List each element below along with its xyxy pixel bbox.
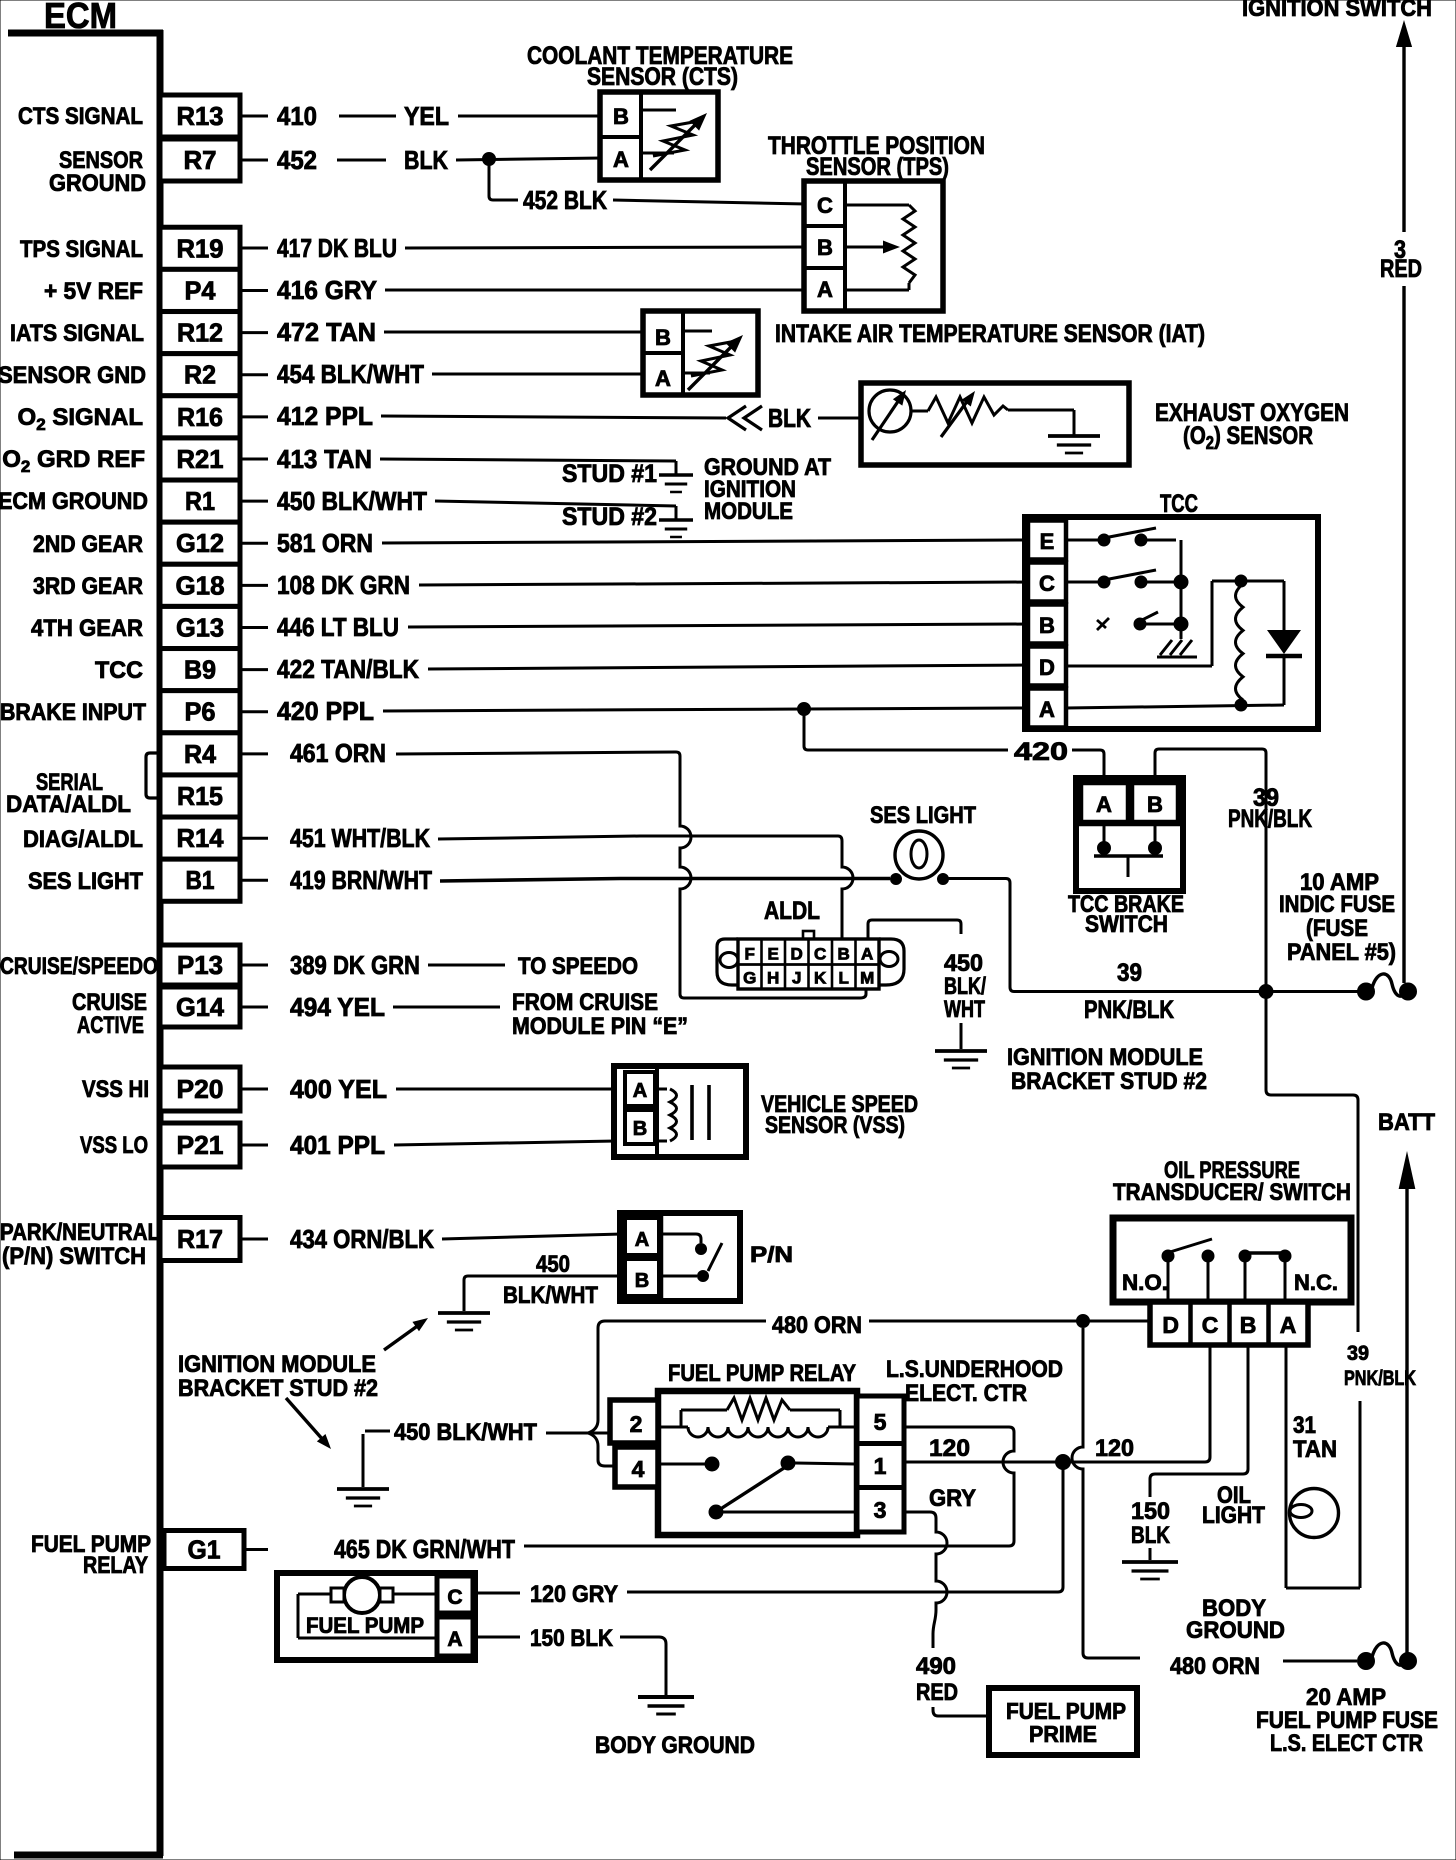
svg-text:SES LIGHT: SES LIGHT: [28, 868, 143, 895]
CTS connector body: [600, 92, 718, 180]
svg-text:490: 490: [916, 1653, 956, 1680]
wire 434 ORN/BLK (R17 to P/N A): [242, 1238, 268, 1241]
fuel pump relay box: [658, 1391, 857, 1535]
svg-text:401 PPL: 401 PPL: [290, 1130, 385, 1160]
wire TCC brake switch B to 39 PNK/BLK: [1155, 749, 1266, 986]
wire 120 GRY (fuel pump C): [475, 1592, 520, 1595]
svg-text:GROUND: GROUND: [1186, 1617, 1285, 1644]
svg-text:SENSOR GND: SENSOR GND: [0, 362, 146, 389]
svg-text:480 ORN: 480 ORN: [772, 1312, 862, 1339]
svg-text:A: A: [1039, 697, 1055, 722]
TCC D wire to solenoid coil: [1066, 665, 1212, 668]
svg-text:IGNITION MODULE: IGNITION MODULE: [1007, 1044, 1203, 1071]
svg-text:+ 5V REF: + 5V REF: [44, 278, 143, 305]
svg-text:G: G: [743, 969, 756, 988]
ALDL pin grid: [738, 939, 879, 989]
svg-text:D: D: [1162, 1312, 1179, 1338]
wire 120 GRY drop to fuel pump C: [627, 1469, 1063, 1592]
svg-text:PNK/BLK: PNK/BLK: [1344, 1367, 1416, 1390]
20 amp fuel pump fuse: [1358, 1653, 1375, 1670]
svg-text:L: L: [839, 969, 849, 988]
TPS wiper arrow: [847, 246, 886, 249]
svg-text:G18: G18: [176, 570, 225, 600]
TCC pin A: [1028, 689, 1066, 728]
svg-text:3RD GEAR: 3RD GEAR: [33, 573, 143, 600]
svg-text:B: B: [1039, 613, 1055, 638]
svg-text:B: B: [655, 325, 671, 350]
O2 variable resistor: [928, 397, 1008, 423]
svg-text:TCC: TCC: [95, 657, 143, 684]
svg-text:(FUSE: (FUSE: [1306, 915, 1368, 942]
wire 452 BLK (R7 to CTS A): [242, 159, 268, 162]
svg-text:108 DK GRN: 108 DK GRN: [277, 570, 410, 600]
fuel pump box: [277, 1573, 475, 1660]
ECM pin R19: [160, 227, 240, 269]
svg-text:MODULE: MODULE: [704, 498, 793, 525]
svg-text:BRACKET STUD #2: BRACKET STUD #2: [1011, 1068, 1207, 1095]
svg-text:FROM CRUISE: FROM CRUISE: [512, 989, 658, 1016]
svg-text:PANEL #5): PANEL #5): [1287, 939, 1396, 966]
svg-text:410: 410: [277, 101, 317, 131]
svg-text:413 TAN: 413 TAN: [277, 444, 372, 474]
svg-text:BLK: BLK: [404, 145, 448, 175]
svg-text:B: B: [817, 235, 833, 260]
wire 420 PPL (P6 to TCC A): [242, 710, 268, 713]
svg-text:YEL: YEL: [404, 101, 449, 131]
svg-text:A: A: [1096, 792, 1112, 817]
svg-text:581 ORN: 581 ORN: [277, 528, 373, 558]
park/neutral switch: [620, 1213, 740, 1301]
P/N switch contacts: [663, 1234, 701, 1243]
wire SES to 39 PNK/BLK line: [948, 879, 1360, 992]
svg-text:R17: R17: [177, 1224, 223, 1254]
svg-text:450 BLK/WHT: 450 BLK/WHT: [394, 1419, 537, 1446]
svg-text:A: A: [817, 277, 833, 302]
ECM pin P20: [160, 1067, 240, 1111]
svg-text:C: C: [814, 945, 826, 964]
svg-text:B: B: [1240, 1312, 1257, 1338]
body ground for fuel pump: [638, 1697, 694, 1714]
wire 465 DK GRN/WHT (G1 to relay pin 5): [242, 1548, 268, 1551]
svg-text:DIAG/ALDL: DIAG/ALDL: [23, 826, 143, 853]
TCC B switch: [1097, 618, 1109, 630]
body ground for 150 BLK: [1122, 1562, 1178, 1579]
relay pins 5/1/3: [857, 1396, 904, 1532]
fuel pump motor: [344, 1577, 380, 1613]
ECM pin R12: [160, 312, 240, 354]
svg-text:CTS SIGNAL: CTS SIGNAL: [18, 103, 143, 130]
fuel pump prime connector: [989, 1688, 1137, 1755]
svg-text:A: A: [633, 1080, 647, 1102]
wire 446 LT BLU (G13 to TCC B): [242, 626, 268, 629]
wire 451 WHT/BLK (R14 to ALDL B): [242, 837, 268, 840]
TCC A internal wire: [1066, 705, 1284, 708]
ECM pin R1: [160, 480, 240, 522]
svg-text:B: B: [613, 104, 629, 129]
svg-text:R14: R14: [177, 823, 225, 853]
svg-text:BRAKE INPUT: BRAKE INPUT: [0, 699, 146, 726]
svg-text:A: A: [655, 366, 671, 391]
svg-text:VSS HI: VSS HI: [82, 1076, 149, 1103]
svg-text:420: 420: [1014, 738, 1068, 766]
wire 39 PNK/BLK (junction down to oil light): [1266, 998, 1358, 1332]
ground at stud #1: [675, 461, 678, 474]
svg-text:C: C: [817, 193, 833, 218]
TCC pin E: [1028, 521, 1066, 560]
oil switch pin row D C B A: [1150, 1302, 1308, 1345]
wire 410 YEL (R13 to CTS B): [242, 115, 268, 118]
svg-text:480 ORN: 480 ORN: [1170, 1653, 1260, 1680]
svg-text:D: D: [1039, 655, 1055, 680]
svg-text:389 DK GRN: 389 DK GRN: [290, 950, 420, 980]
relay contacts: [661, 1463, 705, 1466]
wire 401 PPL (P21 to VSS B): [242, 1144, 268, 1147]
exhaust oxygen sensor box: [861, 383, 1129, 465]
TPS potentiometer: [847, 204, 909, 207]
wire 417 DK BLU (R19 to TPS B): [242, 247, 268, 250]
svg-text:R16: R16: [177, 402, 223, 432]
svg-text:BLK: BLK: [1131, 1522, 1171, 1549]
svg-text:CRUISE/SPEEDO: CRUISE/SPEEDO: [0, 953, 158, 980]
svg-text:RELAY: RELAY: [83, 1552, 148, 1579]
svg-text:STUD #1: STUD #1: [562, 460, 657, 488]
TCC pin C: [1028, 563, 1066, 602]
wire 452 BLK branch to TPS C: [489, 159, 518, 200]
relay resistor (parallel): [680, 1410, 683, 1427]
svg-text:R15: R15: [177, 781, 223, 811]
svg-text:A: A: [613, 147, 629, 172]
svg-text:450 BLK/WHT: 450 BLK/WHT: [277, 486, 427, 516]
svg-text:TCC: TCC: [1160, 490, 1198, 518]
svg-text:(O2) SENSOR: (O2) SENSOR: [1183, 422, 1313, 453]
svg-text:M: M: [860, 969, 874, 988]
serial data bracket (R4/R15): [146, 753, 160, 798]
svg-text:R7: R7: [184, 145, 217, 175]
wire 389 DK GRN (P13 to speedo): [242, 964, 268, 967]
svg-text:B: B: [1147, 792, 1163, 817]
svg-text:INTAKE AIR TEMPERATURE SENSOR: INTAKE AIR TEMPERATURE SENSOR (IAT): [775, 320, 1205, 348]
svg-text:417 DK BLU: 417 DK BLU: [277, 233, 397, 263]
svg-text:ECM GROUND: ECM GROUND: [0, 488, 148, 515]
svg-text:F: F: [745, 945, 755, 964]
wire 461 ORN (R4 to ALDL M): [242, 752, 268, 755]
svg-text:PNK/BLK: PNK/BLK: [1084, 996, 1174, 1024]
svg-text:TAN: TAN: [1293, 1436, 1337, 1463]
ECM pin G18: [160, 564, 240, 606]
svg-text:4TH GEAR: 4TH GEAR: [31, 615, 143, 642]
ECM pin R17: [160, 1218, 240, 1261]
svg-text:PNK/BLK: PNK/BLK: [1228, 805, 1312, 833]
ECM pin R2: [160, 354, 240, 396]
TCC E switch: [1066, 539, 1098, 542]
wire 450 BLK/WHT fork to relay pins 2 and 4: [546, 1432, 610, 1435]
TCC box: [1025, 517, 1318, 729]
svg-text:461 ORN: 461 ORN: [290, 738, 386, 768]
ECM pin R15: [160, 775, 240, 817]
wire 494 YEL (G14 from cruise): [242, 1006, 268, 1009]
svg-text:C: C: [1202, 1312, 1219, 1338]
svg-text:31: 31: [1293, 1412, 1316, 1439]
svg-text:PARK/NEUTRAL: PARK/NEUTRAL: [0, 1219, 160, 1246]
body ground for P/N 450 BLK/WHT: [438, 1313, 490, 1330]
junction node 39 PNK/BLK: [1259, 985, 1273, 999]
svg-text:465 DK GRN/WHT: 465 DK GRN/WHT: [334, 1534, 515, 1564]
body ground at ignition module bracket stud 2: [935, 1051, 987, 1068]
svg-text:VSS LO: VSS LO: [80, 1132, 148, 1159]
svg-text:R13: R13: [177, 101, 224, 131]
svg-text:1: 1: [874, 1453, 887, 1479]
wire 419 BRN/WHT (B1 to SES light): [242, 879, 268, 882]
svg-text:E: E: [768, 945, 779, 964]
wire 413 TAN (R21 to stud 1): [242, 458, 268, 461]
ground at stud #2: [675, 506, 678, 519]
wire 450 BLK/WHT (R1 to stud 2): [242, 500, 268, 503]
svg-text:P4: P4: [185, 275, 217, 305]
ALDL connector shell left cap: [717, 939, 738, 985]
svg-text:WHT: WHT: [944, 996, 985, 1023]
wire 490 RED (relay pin 3 to fuel pump prime): [906, 1512, 947, 1648]
relay pin 4: [615, 1447, 658, 1487]
svg-text:L.S. ELECT CTR: L.S. ELECT CTR: [1270, 1730, 1423, 1757]
ECM pin G13: [160, 606, 240, 648]
TCC pin B: [1028, 605, 1066, 644]
svg-text:D: D: [791, 945, 803, 964]
node coil top: [1235, 575, 1247, 587]
svg-text:BLK: BLK: [768, 403, 811, 433]
wire 422 TAN/BLK (B9 to TCC D): [242, 668, 268, 671]
wire 450 BLK/WHT (ALDL A to stud 2 ground): [868, 920, 961, 939]
svg-text:INDIC FUSE: INDIC FUSE: [1279, 891, 1395, 918]
svg-text:R19: R19: [177, 233, 224, 263]
wire 416 GRY (P4 to TPS A): [242, 289, 268, 292]
ECM pin B1: [160, 859, 240, 901]
svg-text:G14: G14: [176, 992, 225, 1022]
svg-text:BRACKET STUD #2: BRACKET STUD #2: [178, 1375, 378, 1402]
svg-text:A: A: [447, 1628, 462, 1651]
svg-text:450: 450: [536, 1251, 570, 1278]
vehicle speed sensor (VSS): [614, 1066, 746, 1157]
svg-text:400 YEL: 400 YEL: [290, 1074, 387, 1104]
svg-text:GRY: GRY: [929, 1485, 976, 1512]
svg-text:P6: P6: [185, 697, 216, 727]
ECM pin G12: [160, 522, 240, 564]
svg-text:SENSOR (CTS): SENSOR (CTS): [587, 63, 738, 91]
svg-text:P21: P21: [177, 1130, 224, 1160]
svg-text:TRANSDUCER/ SWITCH: TRANSDUCER/ SWITCH: [1113, 1179, 1351, 1206]
arrow to P/N ground: [384, 1322, 423, 1350]
svg-text:412 PPL: 412 PPL: [277, 401, 373, 431]
svg-text:ELECT. CTR: ELECT. CTR: [905, 1380, 1027, 1407]
ALDL connector shell right cap: [879, 939, 904, 985]
TCC pin D: [1028, 647, 1066, 686]
wire 581 ORN (G12 to TCC E): [242, 542, 268, 545]
svg-text:H: H: [767, 969, 779, 988]
ECM pin R16: [160, 396, 240, 438]
TCC C switch: [1066, 581, 1098, 584]
TCC solenoid coil: [1236, 584, 1244, 700]
svg-text:DATA/ALDL: DATA/ALDL: [6, 791, 131, 818]
svg-text:B9: B9: [184, 655, 216, 685]
svg-text:120 GRY: 120 GRY: [530, 1581, 618, 1608]
ALDL key tab: [803, 931, 814, 939]
svg-text:(P/N) SWITCH: (P/N) SWITCH: [2, 1243, 146, 1270]
TCC brake switch: [1076, 778, 1183, 891]
svg-text:ALDL: ALDL: [764, 897, 820, 925]
svg-text:434 ORN/BLK: 434 ORN/BLK: [290, 1224, 434, 1254]
svg-text:446 LT BLU: 446 LT BLU: [277, 612, 399, 642]
wire 480 ORN down to 20A fuse: [1072, 1328, 1140, 1658]
ECM pin G14: [160, 987, 240, 1027]
svg-text:R4: R4: [184, 739, 217, 769]
svg-text:IATS SIGNAL: IATS SIGNAL: [10, 320, 144, 347]
svg-text:39: 39: [1347, 1342, 1369, 1365]
ECM pin B9: [160, 649, 240, 691]
fuel pump pin C: [435, 1576, 440, 1657]
ground for relay 450 BLK/WHT: [362, 1434, 365, 1487]
ECM spine (connector face): [157, 30, 164, 1856]
svg-text:E: E: [1040, 529, 1055, 554]
svg-text:B: B: [838, 945, 850, 964]
wire 150 BLK (fuel pump A to body ground): [475, 1636, 520, 1639]
ECM pin R7: [160, 139, 240, 181]
fuel pump pin A: [437, 1617, 473, 1656]
CTS thermistor element: [643, 109, 676, 112]
svg-text:A: A: [635, 1229, 649, 1251]
wire 450 BLK/WHT (P/N B to ground): [464, 1276, 620, 1311]
svg-text:2ND GEAR: 2ND GEAR: [33, 531, 143, 558]
svg-text:STUD #2: STUD #2: [562, 503, 657, 531]
svg-text:R21: R21: [177, 444, 224, 474]
svg-text:BATT: BATT: [1378, 1109, 1435, 1136]
junction node 480 ORN: [1077, 1315, 1090, 1328]
svg-text:C: C: [1039, 571, 1055, 596]
svg-text:N.C.: N.C.: [1294, 1270, 1338, 1295]
svg-text:452 BLK: 452 BLK: [523, 185, 607, 215]
svg-text:A: A: [861, 945, 873, 964]
svg-text:N.O.: N.O.: [1122, 1270, 1168, 1295]
wire oil switch B to 150 BLK ground: [1150, 1345, 1248, 1497]
svg-text:150: 150: [1131, 1498, 1170, 1525]
ECM pin P13: [160, 945, 240, 985]
svg-text:39: 39: [1117, 959, 1142, 987]
ECM bottom boundary line: [14, 1852, 163, 1859]
svg-text:P13: P13: [177, 950, 223, 980]
svg-text:TO SPEEDO: TO SPEEDO: [518, 953, 638, 980]
svg-text:2: 2: [630, 1411, 643, 1437]
svg-text:FUEL PUMP: FUEL PUMP: [306, 1613, 424, 1638]
svg-text:G1: G1: [188, 1535, 221, 1565]
ECM pin R21: [160, 438, 240, 480]
TCC brake switch contacts: [1103, 826, 1106, 842]
svg-text:SENSOR (VSS): SENSOR (VSS): [765, 1112, 905, 1139]
svg-text:452: 452: [277, 145, 317, 175]
svg-text:420 PPL: 420 PPL: [277, 696, 374, 726]
svg-text:SENSOR (TPS): SENSOR (TPS): [806, 153, 949, 181]
ECM pin P21: [160, 1123, 240, 1167]
svg-text:RED: RED: [1380, 255, 1422, 283]
ECM top boundary line: [8, 30, 163, 37]
ECM pin P6: [160, 691, 240, 733]
TCC suppression diode: [1241, 580, 1284, 583]
svg-text:BODY GROUND: BODY GROUND: [595, 1732, 755, 1759]
ECM pin R13: [160, 95, 240, 137]
svg-text:R2: R2: [184, 360, 216, 390]
svg-text:TPS SIGNAL: TPS SIGNAL: [20, 236, 143, 263]
svg-text:J: J: [792, 969, 801, 988]
svg-text:ACTIVE: ACTIVE: [77, 1012, 144, 1039]
svg-text:B: B: [633, 1118, 647, 1140]
svg-text:G12: G12: [176, 528, 224, 558]
svg-text:R12: R12: [177, 318, 223, 348]
relay coil: [661, 1426, 688, 1429]
svg-text:451 WHT/BLK: 451 WHT/BLK: [290, 823, 430, 853]
svg-text:120: 120: [1095, 1435, 1134, 1462]
oil switch contacts: [1162, 1250, 1174, 1262]
svg-text:5: 5: [874, 1409, 887, 1435]
IAT connector body: [643, 311, 758, 395]
IAT thermistor element: [685, 330, 712, 333]
svg-text:3: 3: [874, 1497, 887, 1523]
svg-text:IGNITION MODULE: IGNITION MODULE: [178, 1351, 376, 1378]
10 amp indic fuse: [1358, 983, 1375, 1000]
oil switch A drop 31 TAN: [1285, 1345, 1288, 1588]
arrow to relay ground: [286, 1398, 324, 1441]
relay pin 2: [610, 1400, 658, 1443]
svg-text:BLK/WHT: BLK/WHT: [503, 1282, 598, 1309]
ground inside O2 sensor box: [1073, 410, 1076, 435]
svg-text:IGNITION SWITCH: IGNITION SWITCH: [1242, 0, 1432, 22]
svg-text:K: K: [814, 969, 827, 988]
svg-text:SES LIGHT: SES LIGHT: [870, 802, 976, 829]
svg-text:RED: RED: [916, 1679, 958, 1706]
ECM pin R14: [160, 817, 240, 859]
svg-text:LIGHT: LIGHT: [1202, 1502, 1265, 1529]
wire 454 BLK/WHT (R2 to IAT A): [242, 373, 268, 376]
svg-text:B1: B1: [186, 865, 215, 895]
svg-text:GROUND: GROUND: [49, 170, 146, 197]
junction node 120 GRY: [1056, 1455, 1071, 1470]
svg-text:454 BLK/WHT: 454 BLK/WHT: [277, 359, 424, 389]
svg-text:494 YEL: 494 YEL: [290, 992, 385, 1022]
junction node on 452: [483, 153, 496, 166]
svg-text:G13: G13: [176, 613, 224, 643]
svg-text:472 TAN: 472 TAN: [277, 317, 376, 347]
svg-text:FUEL PUMP RELAY: FUEL PUMP RELAY: [668, 1360, 856, 1387]
junction node on 420: [798, 703, 811, 716]
inline connector chevrons: [728, 406, 746, 430]
VSS pickup coil: [655, 1088, 667, 1091]
TCC chassis ground (hatched): [1157, 640, 1197, 657]
wire 108 DK GRN (G18 to TCC C): [242, 584, 268, 587]
svg-text:120: 120: [929, 1435, 970, 1462]
svg-text:L.S.UNDERHOOD: L.S.UNDERHOOD: [886, 1356, 1063, 1383]
svg-text:C: C: [447, 1586, 462, 1609]
wire 400 YEL (P20 to VSS A): [242, 1088, 268, 1091]
svg-text:422 TAN/BLK: 422 TAN/BLK: [277, 654, 419, 684]
oil pressure switch box: [1113, 1218, 1351, 1302]
svg-text:150 BLK: 150 BLK: [530, 1625, 614, 1652]
ECM pin G1: [164, 1531, 244, 1569]
svg-text:P20: P20: [177, 1074, 224, 1104]
svg-text:419 BRN/WHT: 419 BRN/WHT: [290, 865, 432, 895]
oil light bulb: [1290, 1489, 1339, 1538]
svg-text:416 GRY: 416 GRY: [277, 275, 377, 305]
TPS connector body: [804, 181, 943, 311]
wire 412 PPL (R16 to O2 sensor): [242, 415, 268, 418]
svg-text:A: A: [1280, 1312, 1297, 1338]
svg-text:PRIME: PRIME: [1029, 1721, 1097, 1747]
svg-text:R1: R1: [185, 486, 215, 516]
